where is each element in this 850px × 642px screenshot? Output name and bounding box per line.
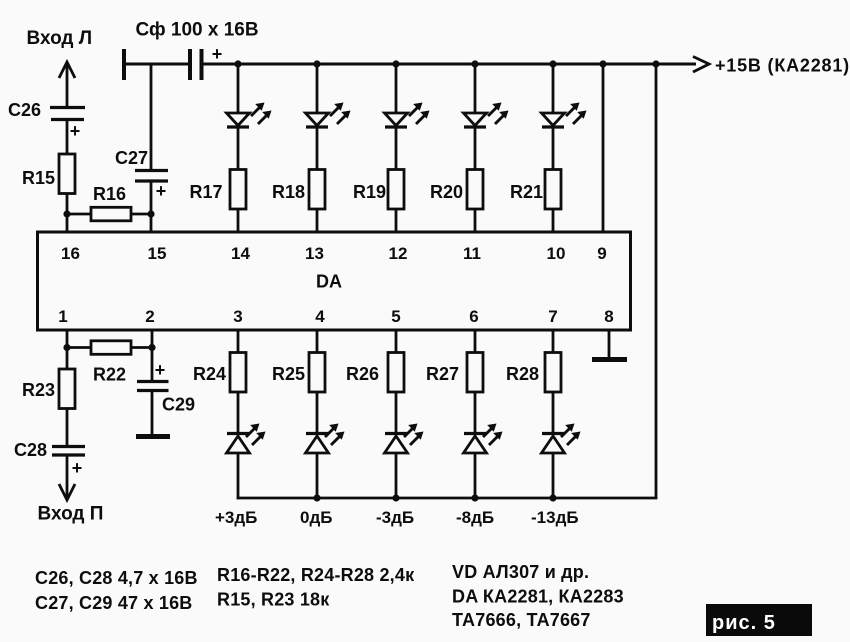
node: bottom rail junction col 7 xyxy=(549,494,556,501)
wire rail to LED VD1 xyxy=(237,64,240,114)
resistor R17 xyxy=(230,170,246,210)
svg-text:ТА7666, ТА7667: ТА7666, ТА7667 xyxy=(452,610,591,630)
svg-text:рис. 5: рис. 5 xyxy=(712,612,776,634)
svg-text:R16: R16 xyxy=(93,184,126,204)
svg-text:+: + xyxy=(70,121,81,141)
resistor R21 xyxy=(545,170,561,210)
wire R21 to pin 10 xyxy=(552,208,555,232)
resistor R26 xyxy=(388,353,404,393)
svg-text:7: 7 xyxy=(548,307,557,326)
node: junction pin15 xyxy=(147,210,154,217)
ground bar (pin 8) xyxy=(592,357,627,362)
svg-text:R20: R20 xyxy=(430,182,463,202)
LED VD2 xyxy=(306,103,351,128)
+15V arrowhead xyxy=(693,57,709,73)
wire: right supply rail down xyxy=(655,64,658,499)
node: bottom rail junction col 5 xyxy=(392,494,399,501)
wire VD3 to R19 xyxy=(395,128,398,170)
node: rail junction col 14 xyxy=(234,60,241,67)
wire R17 to pin 14 xyxy=(237,208,240,232)
svg-text:R15, R23 18к: R15, R23 18к xyxy=(217,590,330,610)
wire R24 to LED VD6 xyxy=(237,391,240,433)
svg-text:+15В (КА2281): +15В (КА2281) xyxy=(715,56,850,76)
wire rail to LED VD4 xyxy=(474,64,477,114)
node: junction pin2 xyxy=(148,344,155,351)
wire VD8 to bottom rail xyxy=(395,452,398,499)
resistor R24 xyxy=(230,353,246,393)
LED VD1 xyxy=(227,103,272,128)
wire R19 to pin 12 xyxy=(395,208,398,232)
resistor R15 xyxy=(59,154,75,194)
svg-text:R18: R18 xyxy=(272,182,305,202)
wire VD7 to bottom rail xyxy=(316,452,319,499)
node: rail junction right rail xyxy=(652,60,659,67)
node: rail junction col 12 xyxy=(392,60,399,67)
output arrow down (right channel) xyxy=(59,455,75,500)
wire node pin1 to R23 xyxy=(66,348,69,371)
svg-text:4: 4 xyxy=(315,307,325,326)
svg-text:-3дБ: -3дБ xyxy=(376,508,414,527)
wire rail to LED VD2 xyxy=(316,64,319,114)
resistor R27 xyxy=(467,353,483,393)
svg-text:Сф 100 х 16В: Сф 100 х 16В xyxy=(136,20,259,41)
svg-text:С27, С29 47 х 16В: С27, С29 47 х 16В xyxy=(35,593,193,613)
svg-text:+: + xyxy=(156,181,167,201)
svg-text:R27: R27 xyxy=(426,364,459,384)
capacitor C27 xyxy=(135,171,168,182)
wire pin 3 to R24 xyxy=(237,329,240,353)
wire pin 1 down xyxy=(66,329,69,348)
wire rail to pin 9 xyxy=(602,64,605,232)
svg-text:11: 11 xyxy=(463,244,481,263)
wire VD9 to bottom rail xyxy=(474,452,477,499)
resistor R19 xyxy=(388,170,404,210)
LED VD10 xyxy=(542,424,581,454)
node: junction pin16 xyxy=(63,210,70,217)
wire VD4 to R20 xyxy=(474,128,477,170)
wire pin 2 down xyxy=(151,329,154,348)
svg-text:Вход Л: Вход Л xyxy=(27,28,93,49)
resistor R20 xyxy=(467,170,483,210)
node: bottom rail junction col 4 xyxy=(313,494,320,501)
wire rail to LED VD3 xyxy=(395,64,398,114)
wire R20 to pin 11 xyxy=(474,208,477,232)
svg-text:+3дБ: +3дБ xyxy=(215,508,257,527)
wire R18 to pin 13 xyxy=(316,208,319,232)
wire pin 7 to R28 xyxy=(552,329,555,353)
svg-text:-13дБ: -13дБ xyxy=(531,508,579,527)
wire: bottom rail xyxy=(237,497,658,500)
capacitor C29 xyxy=(137,382,169,391)
wire terminal bar to Сф xyxy=(124,63,188,66)
wire C26 to R15 xyxy=(66,120,69,156)
svg-text:9: 9 xyxy=(597,244,606,263)
LED VD5 xyxy=(542,103,587,128)
resistor R25 xyxy=(309,353,325,393)
node: junction pin1 xyxy=(63,344,70,351)
svg-text:6: 6 xyxy=(469,307,478,326)
svg-text:15: 15 xyxy=(148,244,167,263)
svg-text:+: + xyxy=(212,44,223,64)
svg-text:+: + xyxy=(155,360,166,380)
node: rail junction pin 9 xyxy=(599,60,606,67)
svg-text:R15: R15 xyxy=(22,168,55,188)
svg-text:+: + xyxy=(72,458,83,478)
svg-text:DA: DA xyxy=(316,272,342,292)
svg-text:С26, С28 4,7 х 16В: С26, С28 4,7 х 16В xyxy=(35,568,198,588)
resistor R28 xyxy=(545,353,561,393)
svg-text:R21: R21 xyxy=(510,182,543,202)
svg-text:С29: С29 xyxy=(162,395,195,415)
wire pin 8 down xyxy=(608,329,611,358)
svg-text:13: 13 xyxy=(305,244,324,263)
svg-text:R22: R22 xyxy=(93,365,126,385)
wire R25 to LED VD7 xyxy=(316,391,319,433)
svg-text:10: 10 xyxy=(547,244,566,263)
node: rail junction col 13 xyxy=(313,60,320,67)
wire: +15V top rail xyxy=(202,63,697,66)
svg-text:С26: С26 xyxy=(8,100,41,120)
node: bottom rail junction col 6 xyxy=(471,494,478,501)
wire R26 to LED VD8 xyxy=(395,391,398,433)
LED VD6 xyxy=(227,424,266,454)
svg-text:16: 16 xyxy=(61,244,80,263)
svg-text:С28: С28 xyxy=(14,440,47,460)
supply left terminal bar xyxy=(122,49,126,80)
wire pin 4 to R25 xyxy=(316,329,319,353)
svg-text:12: 12 xyxy=(389,244,408,263)
LED VD8 xyxy=(385,424,424,454)
capacitor C26 xyxy=(50,108,85,120)
svg-text:14: 14 xyxy=(231,244,250,263)
resistor R22 xyxy=(67,341,152,355)
IC DA box xyxy=(38,232,631,330)
LED VD4 xyxy=(464,103,509,128)
svg-text:VD АЛ307 и др.: VD АЛ307 и др. xyxy=(452,562,589,582)
LED VD3 xyxy=(385,103,430,128)
svg-text:0дБ: 0дБ xyxy=(300,508,332,527)
svg-text:1: 1 xyxy=(58,307,67,326)
resistor R23 xyxy=(59,369,75,409)
wire R27 to LED VD9 xyxy=(474,391,477,433)
figure label box: рис. 5 xyxy=(706,604,812,636)
svg-text:3: 3 xyxy=(233,307,242,326)
wire node to pin 15 xyxy=(150,214,153,232)
wire R28 to LED VD10 xyxy=(552,391,555,433)
svg-text:R25: R25 xyxy=(272,364,305,384)
svg-text:R16-R22, R24-R28 2,4к: R16-R22, R24-R28 2,4к xyxy=(217,565,415,585)
node: rail junction col 10 xyxy=(549,60,556,67)
LED VD9 xyxy=(464,424,503,454)
wire VD1 to R17 xyxy=(237,128,240,170)
LED VD7 xyxy=(306,424,345,454)
svg-text:R28: R28 xyxy=(506,364,539,384)
wire R15 to node L xyxy=(66,193,69,215)
wire VD10 to bottom rail xyxy=(552,452,555,499)
svg-text:R17: R17 xyxy=(190,182,223,202)
wire pin 6 to R27 xyxy=(474,329,477,353)
svg-text:R23: R23 xyxy=(22,380,55,400)
input arrow up (left channel) xyxy=(59,62,75,106)
ground bar (C29) xyxy=(136,434,170,439)
resistor R16 xyxy=(67,207,151,221)
svg-text:R19: R19 xyxy=(353,182,386,202)
svg-text:С27: С27 xyxy=(115,148,148,168)
wire VD6 to bottom rail xyxy=(237,452,240,499)
svg-text:2: 2 xyxy=(145,307,154,326)
wire node to pin 16 xyxy=(66,214,69,232)
capacitor Сф plates xyxy=(190,49,202,80)
wire C29 to ground xyxy=(151,391,154,437)
wire R23 to C28 xyxy=(66,408,69,448)
wire rail to LED VD5 xyxy=(552,64,555,114)
wire C27 to node pin15 xyxy=(150,181,153,214)
svg-text:8: 8 xyxy=(604,307,613,326)
resistor R18 xyxy=(309,170,325,210)
wire pin 5 to R26 xyxy=(395,329,398,353)
wire node pin2 to C29 xyxy=(151,348,154,383)
svg-text:R26: R26 xyxy=(346,364,379,384)
svg-text:5: 5 xyxy=(391,307,400,326)
svg-text:Вход П: Вход П xyxy=(38,504,104,525)
svg-text:-8дБ: -8дБ xyxy=(456,508,494,527)
wire VD5 to R21 xyxy=(552,128,555,170)
wire: rail drop to C27 xyxy=(150,64,153,170)
svg-text:R24: R24 xyxy=(193,364,226,384)
node: rail junction col 11 xyxy=(471,60,478,67)
capacitor C28 xyxy=(52,447,85,456)
wire VD2 to R18 xyxy=(316,128,319,170)
svg-text:DA КА2281, КА2283: DA КА2281, КА2283 xyxy=(452,587,624,607)
